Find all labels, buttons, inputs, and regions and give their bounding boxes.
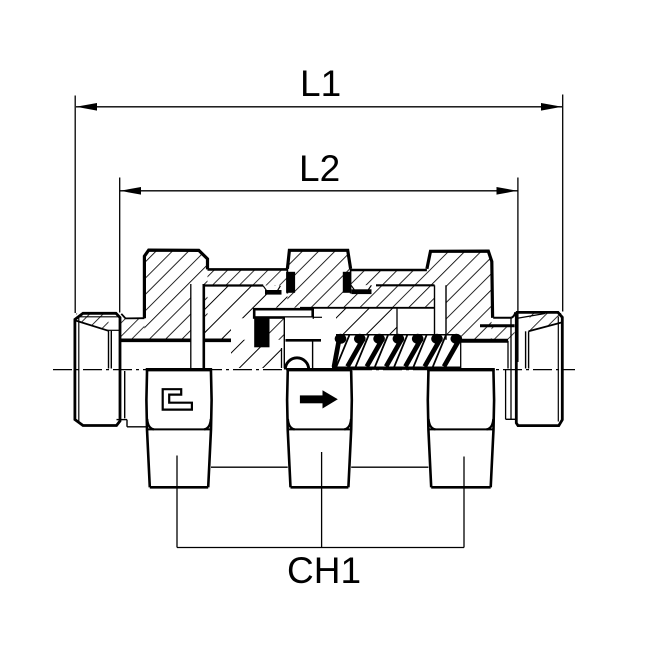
- seal bar right (black): [352, 289, 372, 294]
- hex A front view: [146, 368, 212, 487]
- hatch poppet body: [231, 340, 282, 368]
- hatch poppet skirt right: [336, 309, 397, 335]
- dimension L2: [120, 148, 518, 362]
- logo glyph on hex A: [163, 389, 192, 409]
- left stud cone: [76, 321, 109, 331]
- svg-text:L2: L2: [299, 148, 340, 189]
- svg-text:L1: L1: [300, 63, 341, 104]
- right stud outline: [516, 312, 562, 425]
- cavity divider line: [396, 309, 398, 335]
- hex A section outline: [144, 250, 207, 318]
- white stem guide band: [435, 285, 447, 340]
- poppet stem white: [284, 318, 312, 369]
- right stud bore walls: [525, 331, 527, 368]
- seat bevel notch right: [351, 285, 371, 289]
- tube inner edge left: [204, 284, 264, 286]
- O-ring seal left of hex B (black): [286, 272, 295, 293]
- right stud thread minor line: [557, 317, 559, 422]
- left stud thread crest line: [80, 316, 118, 318]
- hatch tube wall right and hex C section: [351, 251, 492, 340]
- hex B front view: [287, 368, 353, 487]
- left stud thread minor line: [78, 317, 80, 423]
- tube top edge left: [208, 268, 288, 271]
- spring: [332, 334, 462, 368]
- poppet seal (black block): [254, 318, 269, 347]
- hatch nut nose over stud: [121, 318, 144, 340]
- hex B section outline: [287, 250, 350, 268]
- tube top edge right: [351, 269, 427, 272]
- flow arrow on hex B: [300, 390, 338, 408]
- hatch hex B section: [287, 250, 350, 307]
- CH1 bracket: [177, 452, 464, 591]
- right stud thread runout: [516, 314, 545, 319]
- right stud cone: [529, 323, 562, 332]
- left shank step: [119, 371, 121, 418]
- centerline: [53, 369, 575, 371]
- right body step lines: [493, 317, 511, 319]
- dimension L1: [75, 63, 563, 313]
- left stud outline: [75, 313, 120, 425]
- left stud bore walls: [108, 331, 110, 369]
- hatch mid-right band: [351, 285, 435, 308]
- hatch seat hub right of seal: [270, 318, 285, 340]
- O-ring seal right of hex B (black): [343, 272, 351, 293]
- seal bar left (black): [265, 290, 282, 295]
- hatch hex A section: [144, 250, 207, 340]
- connector bottom silhouettes: [211, 466, 288, 468]
- hatch tube wall left: [208, 269, 288, 285]
- tube inner edge right: [376, 284, 435, 286]
- hatch mid lower band: [204, 286, 288, 340]
- poppet cap bar: [254, 309, 322, 317]
- white spring cavity: [397, 309, 435, 335]
- hex C front view: [427, 368, 495, 487]
- hex C section outline: [427, 251, 493, 318]
- shoulder thick line y340 segments: [121, 338, 191, 342]
- svg-text:CH1: CH1: [287, 550, 361, 591]
- right washer front: [510, 318, 512, 419]
- body bore top line: [300, 307, 435, 309]
- white sleeve band in hex A: [191, 284, 204, 368]
- hatch right body small: [492, 326, 515, 340]
- poppet nose arc: [285, 358, 308, 370]
- hatch left stud tip: [76, 314, 109, 331]
- seat bevel notch left: [263, 286, 280, 291]
- hex A nose outline: [121, 314, 144, 319]
- hatch right stud tip: [529, 313, 562, 331]
